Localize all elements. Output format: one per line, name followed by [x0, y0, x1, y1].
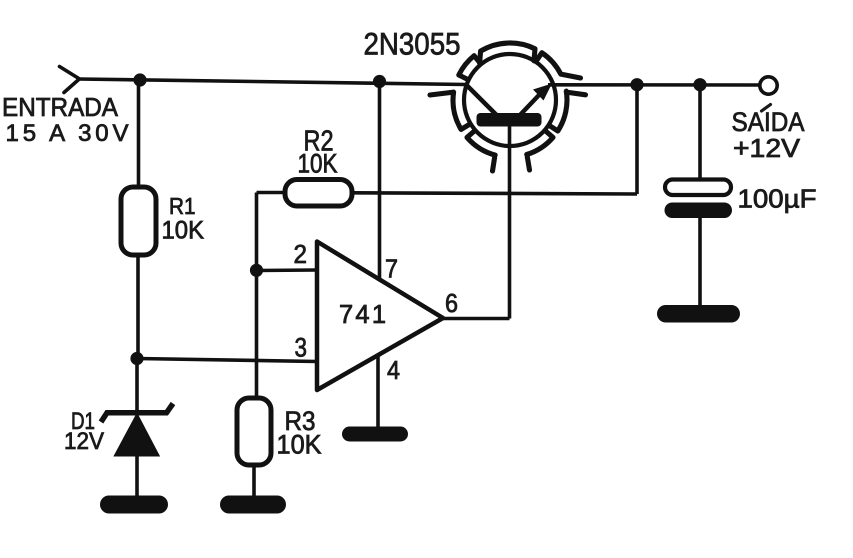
- svg-text:3: 3: [295, 333, 308, 363]
- node dot input/R1: [133, 73, 146, 86]
- wire R3 bottom lead: [252, 463, 256, 498]
- wire base stem: [508, 125, 512, 319]
- wire pin3 from node A to op-amp: [137, 359, 317, 362]
- node dot output/cap: [693, 78, 706, 91]
- svg-text:+12V: +12V: [733, 135, 800, 163]
- output terminal circle: [760, 77, 777, 94]
- accent on I of SAIDA: [762, 105, 771, 112]
- wire D1 top lead: [135, 358, 139, 410]
- node dot pin2/R2/R3: [250, 264, 263, 277]
- svg-text:10K: 10K: [277, 430, 322, 460]
- resistor R2: [285, 180, 352, 207]
- wire pin2 to op-amp: [257, 268, 318, 272]
- node dot emitter/feedback: [630, 78, 643, 91]
- svg-text:2N3055: 2N3055: [364, 26, 461, 62]
- zener diode D1 cathode bar: [101, 404, 173, 423]
- wire R2 left lead + inverting input branch: [255, 193, 259, 400]
- transistor Q1 base bar: [477, 113, 542, 127]
- wire feedback riser: [635, 85, 639, 194]
- zener diode D1 anode triangle: [115, 415, 159, 456]
- transistor Q1 emitter stroke with arrow: [520, 94, 540, 115]
- node dot R1/D1/pin3 (node A): [130, 352, 143, 365]
- ground under capacitor: [657, 305, 740, 323]
- ground under D1: [100, 496, 168, 514]
- svg-text:SAIDA: SAIDA: [732, 107, 805, 137]
- fin left: [430, 92, 469, 129]
- fin lower-right: [527, 132, 553, 171]
- transistor Q1 circle: [464, 54, 556, 146]
- input arrow chevron: [60, 67, 80, 93]
- svg-text:ENTRADA: ENTRADA: [2, 94, 118, 122]
- transistor Q1 collector stroke: [466, 85, 496, 115]
- wire pin6 output to base: [443, 317, 510, 321]
- fin right: [550, 91, 585, 131]
- wire D1 bottom lead to ground: [135, 454, 139, 498]
- wire input rail (left, to transistor collector): [78, 79, 466, 85]
- fin top: [480, 43, 535, 63]
- resistor R1: [121, 187, 156, 255]
- wire pin4 to ground: [376, 355, 380, 429]
- capacitor C1 bottom plate: [665, 203, 733, 219]
- svg-text:R1: R1: [169, 193, 196, 219]
- svg-text:6: 6: [445, 288, 458, 318]
- fin lower-left: [467, 132, 495, 172]
- svg-text:100µF: 100µF: [738, 184, 817, 214]
- wire R1 bottom lead to node: [136, 253, 140, 360]
- node dot pin7 rail: [373, 75, 386, 88]
- wire R1 top lead: [137, 80, 141, 189]
- svg-text:10K: 10K: [162, 217, 205, 245]
- svg-text:741: 741: [339, 301, 386, 329]
- svg-text:2: 2: [294, 239, 308, 269]
- capacitor C1 top plate: [665, 180, 731, 196]
- svg-text:12V: 12V: [64, 428, 104, 455]
- wire capacitor top lead: [698, 85, 702, 181]
- resistor R3: [237, 398, 271, 465]
- wire capacitor bottom lead: [698, 216, 702, 307]
- svg-text:10K: 10K: [298, 149, 338, 179]
- op-amp U1 741 triangle: [317, 242, 443, 391]
- svg-text:4: 4: [387, 355, 400, 385]
- fin upper-right: [537, 53, 581, 78]
- wire R2 right lead to feedback riser: [351, 193, 637, 194]
- ground under R3: [220, 496, 286, 514]
- wire pin7 supply: [378, 81, 382, 280]
- wire output rail (emitter to terminal): [548, 83, 760, 87]
- fin upper-left: [459, 56, 480, 79]
- ground under pin4: [342, 427, 408, 442]
- svg-text:7: 7: [385, 254, 398, 284]
